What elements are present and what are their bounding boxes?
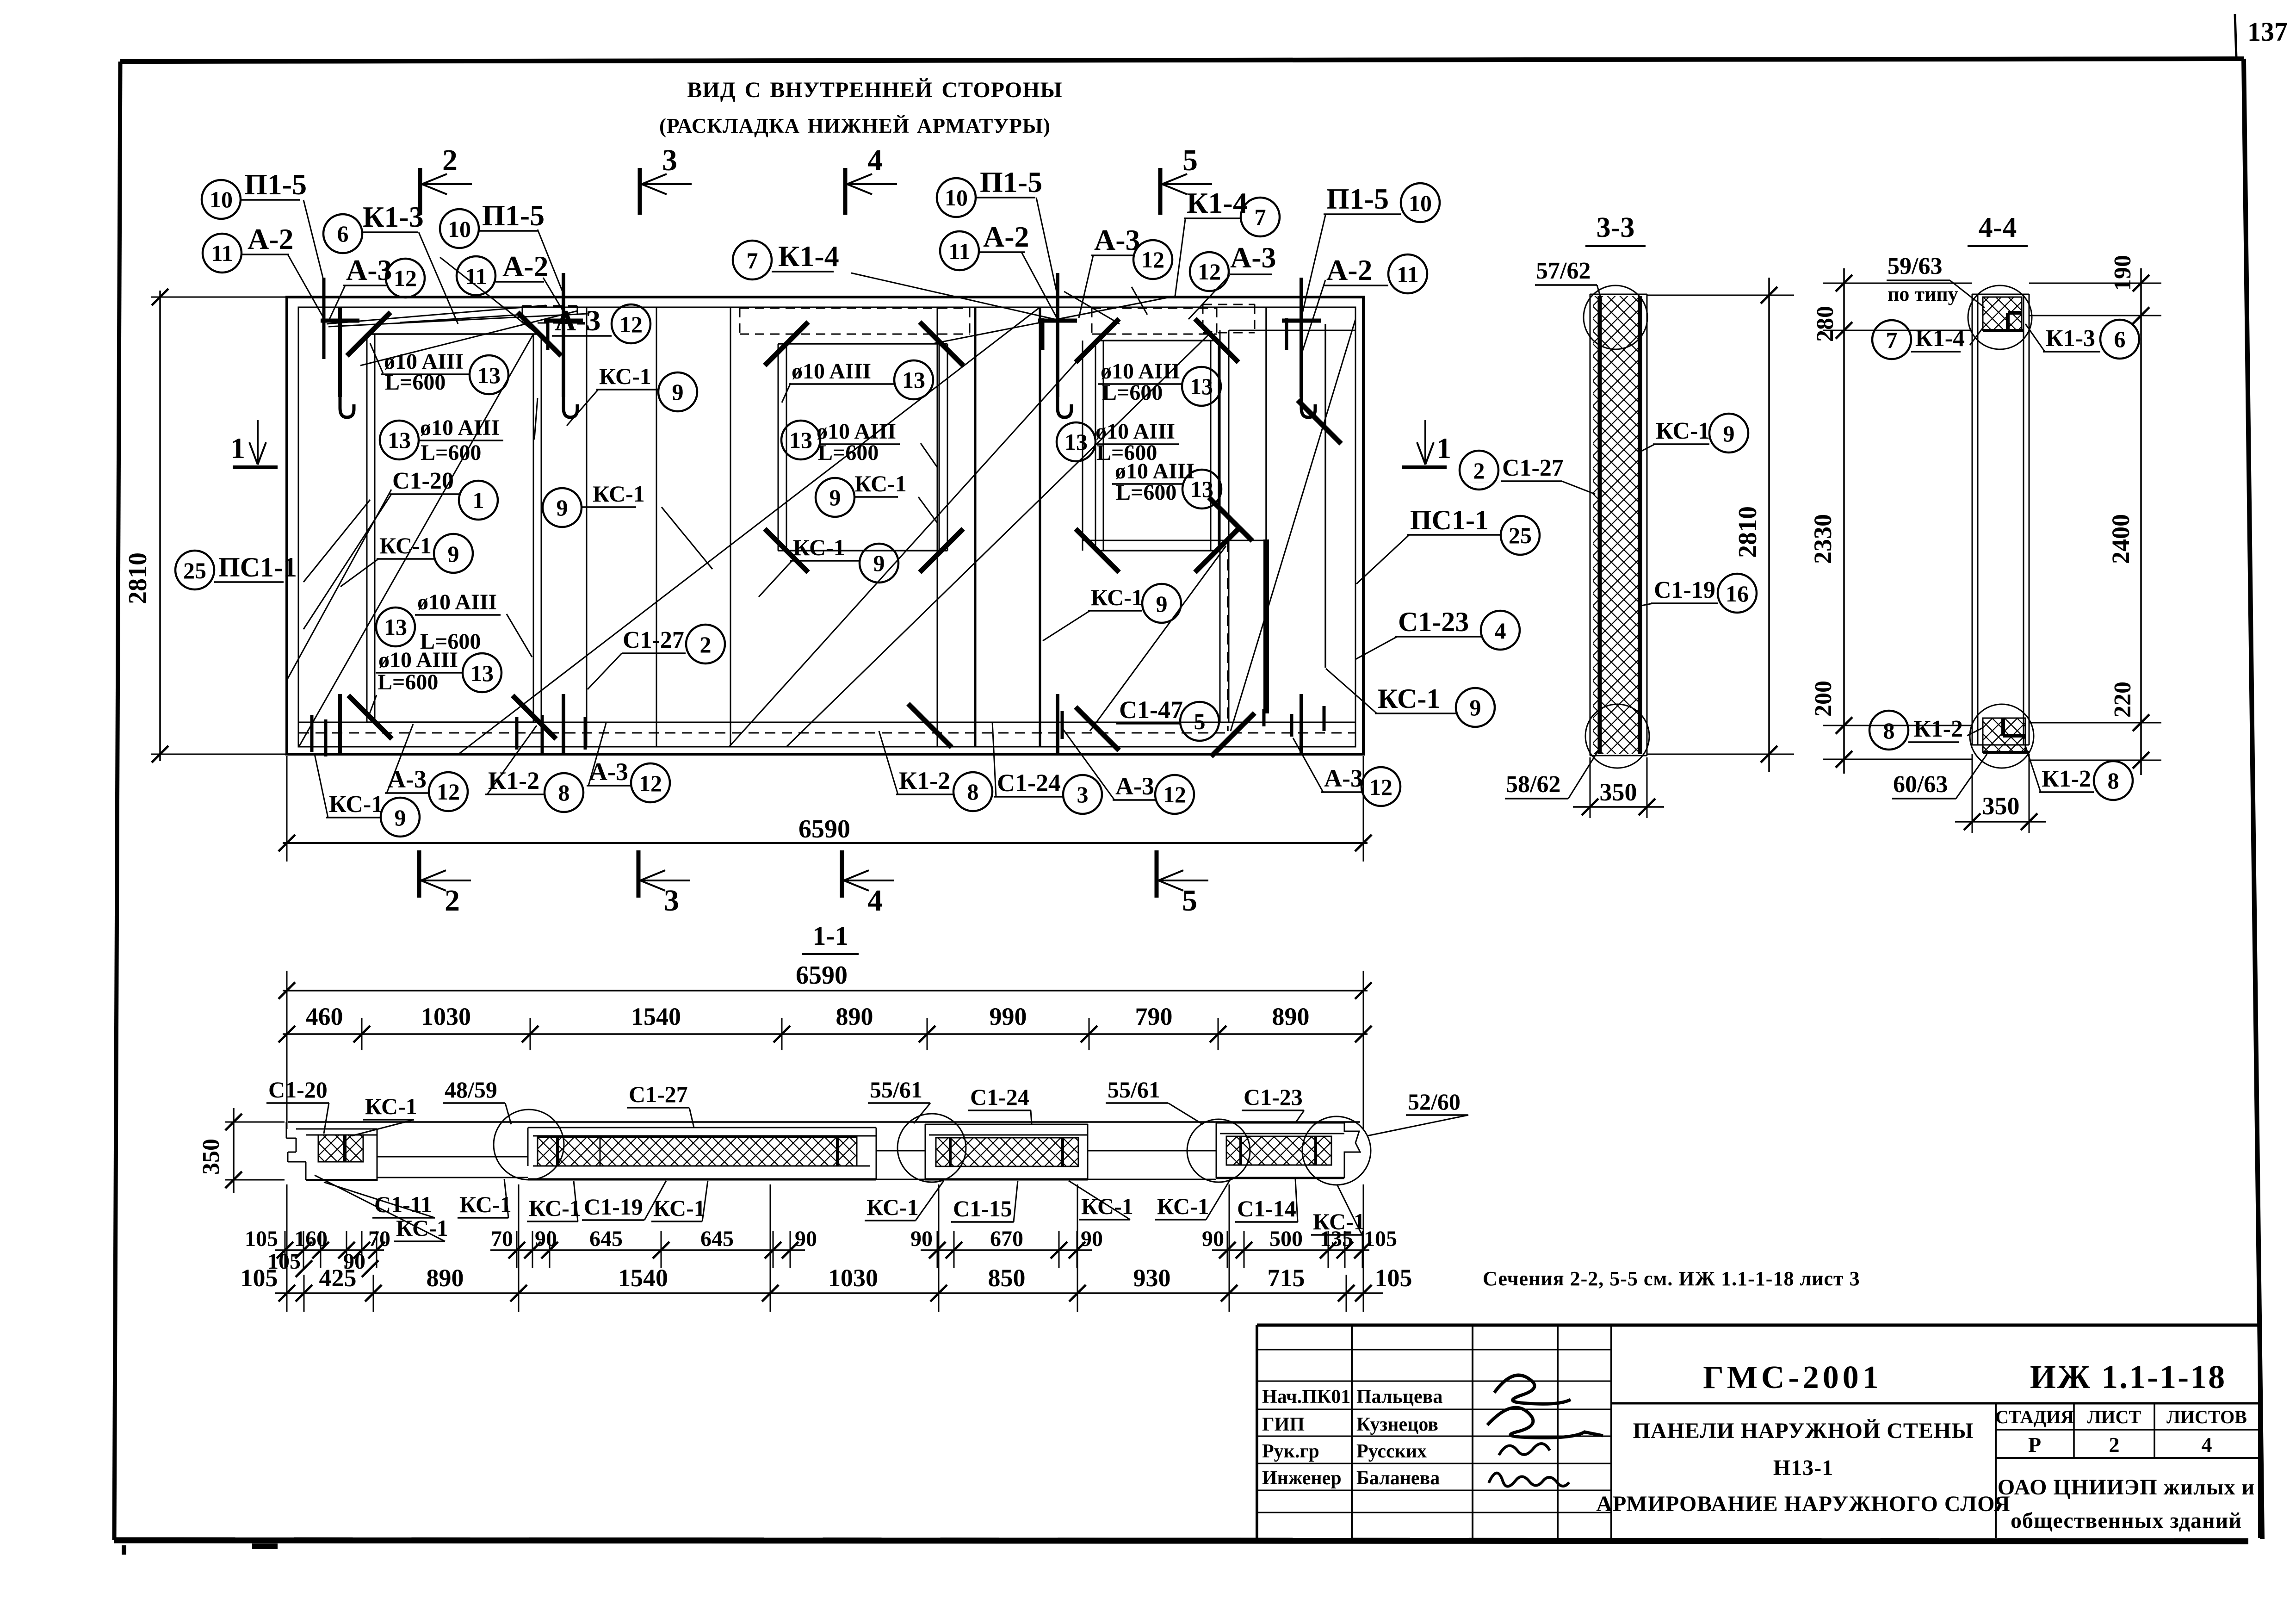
svg-text:Нач.ПК01: Нач.ПК01 [1262, 1386, 1350, 1407]
svg-text:13: 13 [384, 614, 407, 640]
svg-text:С1-27: С1-27 [1502, 455, 1564, 481]
svg-text:3: 3 [662, 143, 677, 177]
svg-text:КС-1: КС-1 [866, 1194, 919, 1220]
svg-text:С1-14: С1-14 [1237, 1196, 1296, 1221]
svg-text:ПАНЕЛИ НАРУЖНОЙ СТЕНЫ: ПАНЕЛИ НАРУЖНОЙ СТЕНЫ [1633, 1419, 1974, 1443]
svg-text:137: 137 [2247, 17, 2288, 47]
svg-text:13: 13 [902, 367, 925, 393]
svg-text:60/63: 60/63 [1893, 771, 1948, 798]
svg-text:8: 8 [2108, 768, 2119, 793]
svg-text:90: 90 [795, 1227, 817, 1251]
svg-text:К1-2: К1-2 [2042, 766, 2091, 792]
svg-text:425: 425 [319, 1264, 357, 1292]
svg-text:К1-2: К1-2 [899, 767, 950, 794]
svg-text:12: 12 [1141, 247, 1164, 273]
svg-text:13: 13 [789, 427, 812, 453]
svg-text:5: 5 [1182, 143, 1198, 177]
svg-text:К1-3: К1-3 [363, 200, 424, 233]
svg-text:9: 9 [873, 550, 885, 576]
svg-text:8: 8 [1883, 718, 1895, 744]
svg-text:670: 670 [990, 1227, 1023, 1251]
svg-text:12: 12 [639, 770, 662, 796]
svg-text:12: 12 [394, 265, 417, 291]
svg-text:990: 990 [990, 1003, 1027, 1030]
svg-text:13: 13 [1190, 476, 1213, 502]
svg-text:ø10 AIII: ø10 AIII [378, 648, 458, 672]
svg-text:КС-1: КС-1 [379, 533, 432, 558]
svg-text:13: 13 [388, 427, 411, 453]
svg-text:С1-15: С1-15 [953, 1196, 1012, 1221]
svg-text:11: 11 [1397, 261, 1418, 287]
svg-text:105: 105 [241, 1264, 278, 1292]
svg-text:2810: 2810 [124, 552, 152, 604]
svg-text:ЛИСТ: ЛИСТ [2087, 1407, 2141, 1427]
svg-text:10: 10 [1409, 190, 1432, 216]
svg-text:3: 3 [664, 884, 679, 917]
svg-text:Русских: Русских [1356, 1441, 1427, 1462]
svg-text:А-3: А-3 [388, 765, 427, 793]
svg-text:850: 850 [988, 1264, 1026, 1292]
svg-text:58/62: 58/62 [1506, 771, 1560, 798]
svg-text:160: 160 [294, 1227, 328, 1251]
svg-text:L=600: L=600 [385, 370, 446, 395]
svg-text:Пальцева: Пальцева [1356, 1386, 1442, 1407]
svg-text:350: 350 [198, 1139, 224, 1175]
svg-text:К1-2: К1-2 [488, 767, 539, 794]
svg-text:Н13-1: Н13-1 [1773, 1456, 1833, 1480]
svg-text:ø10 AIII: ø10 AIII [420, 415, 500, 440]
svg-text:КС-1: КС-1 [365, 1093, 417, 1119]
svg-text:С1-20: С1-20 [392, 468, 454, 494]
svg-text:12: 12 [1163, 781, 1186, 807]
svg-text:L=600: L=600 [378, 670, 438, 694]
svg-text:2: 2 [2109, 1433, 2120, 1457]
svg-text:А-3: А-3 [555, 304, 601, 337]
svg-text:2400: 2400 [2107, 514, 2135, 564]
svg-text:ø10 AIII: ø10 AIII [417, 590, 497, 614]
svg-text:48/59: 48/59 [445, 1077, 497, 1103]
svg-text:С1-19: С1-19 [1654, 577, 1715, 603]
svg-text:90: 90 [1202, 1227, 1224, 1251]
svg-text:890: 890 [836, 1003, 873, 1030]
svg-text:L=600: L=600 [1102, 380, 1163, 405]
svg-text:К1-4: К1-4 [1187, 186, 1248, 219]
svg-text:ПС1-1: ПС1-1 [1410, 505, 1489, 535]
svg-text:КС-1: КС-1 [593, 481, 645, 507]
svg-text:57/62: 57/62 [1536, 258, 1590, 284]
svg-text:1540: 1540 [618, 1264, 668, 1292]
svg-text:2330: 2330 [1809, 514, 1837, 564]
svg-text:790: 790 [1135, 1003, 1173, 1030]
svg-text:6: 6 [337, 221, 349, 247]
svg-text:КС-1: КС-1 [329, 791, 383, 818]
svg-text:9: 9 [1723, 421, 1735, 446]
svg-text:ø10 AIII: ø10 AIII [792, 359, 871, 384]
svg-text:52/60: 52/60 [1408, 1089, 1461, 1115]
svg-text:9: 9 [1470, 694, 1481, 720]
svg-text:6590: 6590 [796, 961, 848, 990]
svg-text:12: 12 [1198, 259, 1221, 285]
svg-text:105: 105 [1364, 1227, 1397, 1251]
svg-text:С1-23: С1-23 [1244, 1084, 1303, 1110]
svg-text:1: 1 [473, 487, 484, 513]
svg-text:55/61: 55/61 [870, 1077, 922, 1103]
svg-text:ИЖ 1.1-1-18: ИЖ 1.1-1-18 [2030, 1358, 2226, 1395]
svg-text:КС-1: КС-1 [599, 363, 651, 389]
svg-text:КС-1: КС-1 [1157, 1193, 1209, 1219]
svg-text:С1-19: С1-19 [584, 1194, 643, 1220]
svg-text:5: 5 [1194, 708, 1206, 734]
svg-text:СТАДИЯ: СТАДИЯ [1995, 1407, 2074, 1427]
svg-text:L=600: L=600 [421, 440, 481, 465]
svg-text:Кузнецов: Кузнецов [1356, 1414, 1438, 1435]
svg-text:4: 4 [2202, 1433, 2212, 1457]
svg-text:ГМС-2001: ГМС-2001 [1703, 1360, 1882, 1395]
svg-text:А-3: А-3 [1115, 772, 1154, 800]
svg-text:ЛИСТОВ: ЛИСТОВ [2166, 1407, 2247, 1427]
svg-text:10: 10 [210, 186, 233, 212]
svg-text:ПС1-1: ПС1-1 [218, 552, 297, 583]
svg-text:890: 890 [1272, 1003, 1310, 1030]
svg-text:КС-1: КС-1 [1378, 683, 1440, 714]
svg-text:25: 25 [1509, 522, 1532, 548]
svg-text:6590: 6590 [798, 815, 850, 843]
svg-text:С1-23: С1-23 [1398, 607, 1469, 637]
svg-text:КС-1: КС-1 [793, 534, 845, 560]
svg-text:59/63: 59/63 [1888, 253, 1942, 279]
svg-text:ГИП: ГИП [1262, 1414, 1305, 1435]
svg-text:5: 5 [1182, 884, 1197, 917]
svg-text:8: 8 [967, 779, 979, 805]
svg-text:А-2: А-2 [248, 223, 294, 255]
svg-text:190: 190 [2110, 255, 2136, 291]
svg-text:Р: Р [2028, 1433, 2041, 1457]
svg-text:общественных зданий: общественных зданий [2011, 1508, 2242, 1533]
svg-text:6: 6 [2114, 326, 2126, 352]
svg-text:90: 90 [1081, 1227, 1103, 1251]
svg-text:1-1: 1-1 [812, 921, 848, 951]
svg-text:350: 350 [1982, 792, 2020, 820]
svg-text:135: 135 [1320, 1227, 1353, 1251]
svg-text:10: 10 [448, 216, 471, 242]
svg-text:890: 890 [427, 1264, 464, 1292]
svg-text:105: 105 [245, 1227, 278, 1251]
svg-text:11: 11 [948, 238, 970, 264]
svg-text:1: 1 [1436, 432, 1451, 465]
svg-text:К1-3: К1-3 [2046, 325, 2095, 352]
svg-text:КС-1: КС-1 [396, 1215, 448, 1241]
svg-text:7: 7 [747, 248, 758, 273]
svg-text:(РАСКЛАДКА НИЖНЕЙ АРМАТУРЫ): (РАСКЛАДКА НИЖНЕЙ АРМАТУРЫ) [659, 114, 1051, 137]
svg-text:С1-20: С1-20 [268, 1077, 328, 1103]
svg-text:АРМИРОВАНИЕ НАРУЖНОГО СЛОЯ: АРМИРОВАНИЕ НАРУЖНОГО СЛОЯ [1596, 1492, 2010, 1516]
svg-text:25: 25 [183, 558, 206, 583]
svg-text:90: 90 [535, 1227, 557, 1251]
svg-text:10: 10 [945, 185, 968, 211]
svg-text:П1-5: П1-5 [244, 168, 307, 201]
svg-text:КС-1: КС-1 [854, 471, 907, 496]
svg-text:КС-1: КС-1 [459, 1191, 512, 1217]
svg-text:105: 105 [1375, 1264, 1412, 1292]
svg-text:Инженер: Инженер [1262, 1468, 1342, 1489]
svg-text:55/61: 55/61 [1108, 1077, 1160, 1103]
svg-text:4: 4 [867, 884, 883, 917]
svg-text:13: 13 [1064, 429, 1088, 455]
svg-text:9: 9 [672, 379, 684, 405]
svg-text:по типу: по типу [1888, 283, 1958, 305]
svg-text:Баланева: Баланева [1356, 1468, 1440, 1489]
svg-text:А-2: А-2 [502, 250, 549, 283]
svg-text:1030: 1030 [421, 1003, 471, 1030]
svg-text:КС-1: КС-1 [653, 1195, 706, 1221]
svg-text:460: 460 [306, 1003, 343, 1030]
svg-text:Рук.гр: Рук.гр [1262, 1441, 1319, 1462]
svg-text:9: 9 [395, 805, 406, 831]
svg-text:ВИД С ВНУТРЕННЕЙ СТОРОНЫ: ВИД С ВНУТРЕННЕЙ СТОРОНЫ [687, 78, 1062, 102]
svg-text:КС-1: КС-1 [529, 1195, 581, 1221]
svg-text:К1-4: К1-4 [778, 240, 839, 273]
svg-text:11: 11 [465, 263, 487, 289]
svg-text:645: 645 [700, 1227, 734, 1251]
svg-text:П1-5: П1-5 [980, 166, 1042, 198]
svg-text:2: 2 [442, 143, 458, 177]
svg-text:4: 4 [1495, 618, 1506, 644]
svg-text:11: 11 [211, 240, 233, 266]
svg-text:С1-27: С1-27 [629, 1081, 688, 1107]
svg-text:1030: 1030 [828, 1264, 878, 1292]
svg-text:8: 8 [558, 780, 570, 806]
svg-text:12: 12 [437, 779, 460, 805]
svg-text:200: 200 [1810, 681, 1837, 717]
svg-text:К1-4: К1-4 [1915, 325, 1965, 352]
svg-text:930: 930 [1133, 1264, 1171, 1292]
svg-text:П1-5: П1-5 [482, 199, 545, 232]
svg-text:2: 2 [445, 884, 460, 917]
svg-text:С1-27: С1-27 [623, 627, 684, 653]
svg-text:2: 2 [700, 632, 712, 657]
svg-text:С1-24: С1-24 [970, 1084, 1029, 1110]
svg-text:350: 350 [1600, 778, 1637, 806]
svg-text:9: 9 [829, 484, 841, 510]
svg-text:А-3: А-3 [1230, 241, 1276, 274]
svg-text:715: 715 [1268, 1264, 1305, 1292]
svg-text:2810: 2810 [1733, 506, 1762, 558]
svg-text:L=600: L=600 [1116, 480, 1176, 505]
svg-text:13: 13 [477, 362, 501, 388]
svg-text:220: 220 [2110, 682, 2136, 718]
svg-text:12: 12 [619, 311, 643, 337]
svg-text:Сечения 2-2, 5-5 см. ИЖ 1.1-1: Сечения 2-2, 5-5 см. ИЖ 1.1-1-18 лист 3 [1483, 1267, 1860, 1290]
svg-text:9: 9 [1156, 591, 1168, 617]
svg-text:90: 90 [910, 1227, 933, 1251]
svg-text:КС-1: КС-1 [1091, 584, 1143, 610]
svg-text:3-3: 3-3 [1597, 212, 1635, 243]
svg-text:2: 2 [1473, 458, 1485, 483]
svg-text:13: 13 [1190, 373, 1213, 399]
svg-text:500: 500 [1269, 1227, 1303, 1251]
svg-text:13: 13 [470, 660, 494, 686]
svg-text:3: 3 [1077, 781, 1089, 807]
svg-text:1: 1 [230, 432, 245, 465]
svg-text:КС-1: КС-1 [1656, 418, 1710, 444]
svg-text:ОАО ЦНИИЭП жилых и: ОАО ЦНИИЭП жилых и [1998, 1475, 2255, 1500]
svg-text:А-3: А-3 [1324, 764, 1363, 792]
svg-text:70: 70 [368, 1227, 390, 1251]
svg-text:П1-5: П1-5 [1326, 182, 1389, 215]
svg-text:645: 645 [589, 1227, 623, 1251]
svg-text:9: 9 [448, 541, 459, 567]
svg-text:280: 280 [1812, 306, 1838, 342]
svg-text:С1-47: С1-47 [1119, 696, 1183, 724]
svg-text:4: 4 [867, 143, 883, 177]
svg-text:L=600: L=600 [818, 440, 879, 465]
svg-text:КС-1: КС-1 [1081, 1193, 1133, 1219]
svg-text:1540: 1540 [631, 1003, 681, 1030]
svg-text:4-4: 4-4 [1979, 212, 2017, 243]
svg-text:16: 16 [1726, 581, 1749, 607]
svg-text:С1-24: С1-24 [997, 769, 1061, 797]
svg-text:А-3: А-3 [1094, 223, 1140, 256]
svg-text:12: 12 [1369, 774, 1392, 800]
svg-text:9: 9 [557, 495, 568, 521]
svg-text:А-2: А-2 [1326, 254, 1373, 286]
svg-text:А-2: А-2 [983, 220, 1029, 253]
svg-text:7: 7 [1255, 204, 1266, 230]
svg-text:70: 70 [491, 1227, 513, 1251]
svg-text:К1-2: К1-2 [1913, 716, 1963, 742]
